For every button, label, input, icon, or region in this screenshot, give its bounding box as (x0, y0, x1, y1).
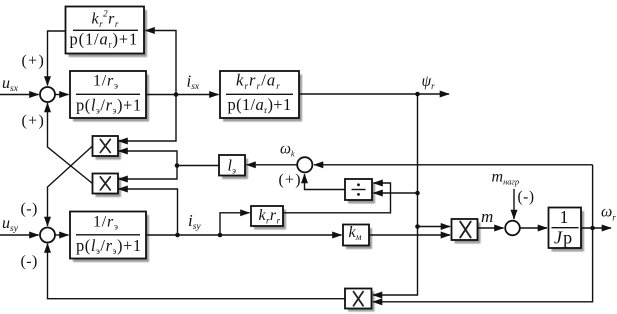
svg-text:p(1/ar)+1: p(1/ar)+1 (70, 29, 139, 49)
block G4 stator y 1/r_e/(p(l_e/r_e)+1) (70, 212, 146, 259)
svg-text:(-): (-) (21, 253, 38, 270)
block G2 stator x 1/r_e/(p(l_e/r_e)+1) (70, 71, 146, 118)
wire omega_r node up to omega_k feed line (592, 165, 594, 228)
svg-text:p(lэ/rэ)+1: p(lэ/rэ)+1 (76, 95, 142, 115)
1/Jp fraction bar (552, 227, 579, 229)
node A on l_e line (175, 163, 180, 168)
wire u_sy input to summing junction S2 (0, 234, 39, 236)
block G3 rotor flux k_r*r_r/a_r/(p(1/a_r)+1) (220, 71, 299, 118)
wire psi_r node to divider lower input (374, 192, 418, 194)
block l_e (219, 155, 245, 176)
svg-text:(+): (+) (279, 172, 302, 189)
wire G1 output down to S1 plus input (48, 31, 66, 86)
wire G4 output to k_m block (i_sy line) (146, 234, 342, 236)
G1 fraction bar (73, 29, 138, 31)
svg-text:(+): (+) (22, 53, 46, 70)
wire G2 output to block G3 (i_sx line) (146, 94, 219, 96)
multiplier X1 (93, 136, 119, 156)
wire S3 output to l_e input (247, 164, 298, 166)
X2 glyph (100, 177, 110, 190)
wire i_sx node up to block G1 input (146, 31, 177, 95)
node i_sx (174, 92, 179, 97)
block G1 flux feedback k_r^2*r_r/(p(1/a_r)+1) (66, 7, 145, 54)
wire psi_r feedback drop to X4 upper input (373, 94, 418, 295)
block k_m (343, 225, 369, 246)
wire G3 output to psi_r arrow (299, 93, 449, 95)
wire node A down to X2 upper input (119, 166, 178, 180)
wire divider output up to S3 plus input (305, 174, 346, 190)
wire 1/Jp output to omega_r arrow (581, 227, 611, 229)
X1 glyph (100, 139, 110, 152)
wire psi_r node to X3 upper input (418, 226, 451, 228)
wire omega_r node down to X4 lower input (373, 228, 593, 302)
wire i_sy branch up to k_r*r_r block (220, 213, 250, 235)
summing junction S1 (40, 87, 55, 102)
wire k_m output to X3 lower input (369, 234, 450, 236)
svg-text:(-): (-) (21, 201, 38, 218)
node i_sy tap for k_r*r_r (218, 233, 223, 238)
G4 fraction bar (76, 234, 140, 236)
node psi_r tap for divider (415, 191, 420, 196)
block 1/Jp integrator (549, 208, 582, 249)
svg-text:p(lэ/rэ)+1: p(lэ/rэ)+1 (76, 236, 142, 256)
block k_r*r_r (251, 206, 283, 226)
wire node A up to X1 lower input (119, 151, 178, 166)
summing junction S4 torque (505, 221, 520, 236)
multiplier X2 (93, 174, 119, 194)
svg-text:Jp: Jp (554, 228, 573, 248)
wire omega_r feedback to S3 right input (314, 164, 593, 166)
node psi_r (415, 92, 420, 97)
G3 fraction bar (226, 93, 293, 95)
wire k_r*r_r output to divider upper input (283, 183, 391, 213)
node i_sy tap for X2 (175, 233, 180, 238)
wire i_sx node down to multiplier X1 upper input (119, 95, 177, 142)
summing junction S2 (40, 228, 55, 243)
wire X2 output diagonal to S1 plus input (48, 103, 93, 184)
G2 fraction bar (76, 93, 140, 95)
wire X4 output to S2 minus input (48, 244, 346, 299)
wire i_sy node up to X2 lower input (119, 189, 178, 235)
svg-text:(+): (+) (22, 113, 46, 130)
divider block (345, 179, 372, 200)
wire u_sx input to summing junction S1 (0, 94, 39, 96)
svg-text:m: m (481, 207, 493, 226)
wire X3 output m to S4 (478, 227, 504, 229)
node psi_r tap for X3 (415, 224, 420, 229)
multiplier X4 emf (345, 289, 372, 309)
svg-text:p(1/ar)+1: p(1/ar)+1 (228, 95, 292, 115)
wire S4 output to 1/Jp block (520, 227, 547, 229)
wire S2 to block G4 (55, 234, 69, 236)
node omega_r tap (590, 226, 595, 231)
wire m_load input down to S4 minus input (513, 189, 515, 219)
X4 glyph (354, 292, 364, 306)
X3 glyph (460, 222, 471, 238)
svg-text:1: 1 (560, 207, 569, 227)
multiplier X3 torque (452, 219, 478, 240)
wire X1 output diagonal to S2 minus input (48, 146, 93, 226)
svg-text:(-): (-) (518, 189, 535, 206)
wire S1 to block G2 (55, 94, 69, 96)
divider symbol (352, 189, 366, 191)
summing junction S3 omega_k (297, 157, 312, 172)
wire l_e output to node A (177, 165, 219, 167)
